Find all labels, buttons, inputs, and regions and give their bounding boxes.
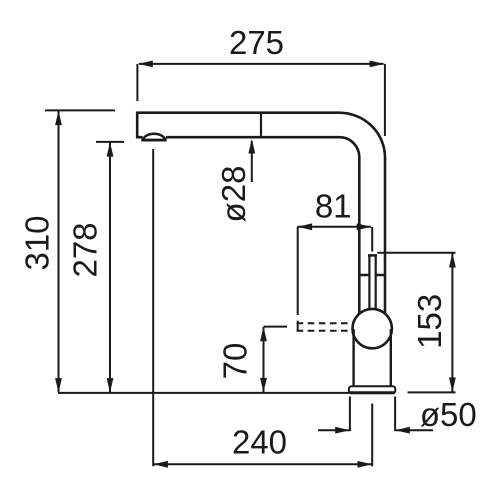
dia50 right extension line — [394, 397, 396, 432]
aerator base line — [141, 139, 166, 142]
dim 153 line — [451, 253, 453, 392]
dim 275 right extension line — [384, 64, 386, 136]
arrowhead 153 bottom — [449, 378, 456, 393]
arrowhead dia50 left — [335, 427, 350, 434]
dim 81 left extension line — [297, 227, 299, 315]
base flange — [349, 386, 395, 393]
arrowhead dia50 right — [395, 427, 410, 434]
arrowhead 81 left — [298, 223, 313, 230]
svg-text:153: 153 — [411, 294, 448, 349]
dim 278 line — [109, 142, 111, 392]
body right wall — [390, 329, 392, 386]
dim 81 right extension line — [371, 227, 373, 252]
body left wall — [352, 329, 354, 386]
svg-text:70: 70 — [217, 343, 254, 380]
hose rod left wall — [368, 255, 370, 310]
svg-text:ø50: ø50 — [420, 396, 477, 433]
arrowhead 310 bottom — [55, 378, 62, 393]
pull-out head joint line on spout — [260, 114, 262, 137]
svg-text:81: 81 — [315, 188, 352, 225]
dia50 right arrow tail — [396, 429, 433, 431]
dim 240 right extension line — [371, 404, 373, 467]
ball joint circle — [353, 309, 392, 348]
dim 310 line — [58, 111, 60, 392]
dim 310 top extension line — [45, 109, 115, 111]
hidden hose upper dashed line — [297, 322, 353, 324]
arrowhead 81 right — [357, 223, 372, 230]
dia50 left arrow tail — [318, 429, 349, 431]
dim 240 left extension line — [152, 149, 154, 466]
arrowhead 153 top — [449, 253, 456, 268]
faucet spout outer outline (top edge, bend, outer riser wall) — [137, 113, 385, 315]
arrowhead 240 right — [358, 461, 373, 468]
hose rod right wall — [375, 255, 377, 310]
arrowhead 310 top — [55, 111, 62, 126]
dim 70 line — [263, 327, 265, 392]
dim 275 left extension line — [136, 64, 138, 101]
riser joint ring right — [376, 274, 385, 277]
dim 81 left extension dash — [297, 321, 299, 331]
arrowhead 275 left — [138, 61, 153, 68]
dia28 leader line — [251, 141, 253, 182]
faucet spout tip left edge — [136, 112, 139, 139]
riser joint ring left — [359, 274, 368, 277]
svg-text:278: 278 — [67, 222, 104, 277]
faucet spout inner outline (bottom edge, inner bend, inner riser wall) — [166, 137, 359, 314]
faucet spout bottom edge stub at tip — [136, 136, 143, 139]
svg-text:240: 240 — [232, 424, 287, 461]
dim 70 top tick — [264, 326, 288, 328]
arrowhead 240 left — [153, 461, 168, 468]
baseline extension right of flange — [408, 391, 456, 393]
base flange bottom thick line — [350, 391, 395, 394]
hose rod cap — [368, 254, 377, 257]
dia50 left extension line — [349, 397, 351, 432]
dim 153 top extension line — [377, 252, 455, 254]
countertop baseline — [58, 392, 395, 394]
hidden hose lower dashed line — [297, 330, 353, 332]
arrowhead 278 bottom — [107, 378, 114, 393]
svg-text:275: 275 — [229, 24, 284, 61]
svg-text:310: 310 — [19, 215, 56, 270]
arrowhead 70 bottom — [260, 378, 267, 393]
aerator dome at spout tip — [143, 134, 166, 140]
dim 278 top extension tick — [96, 141, 124, 143]
dim 275 line — [139, 63, 384, 65]
svg-text:ø28: ø28 — [215, 166, 252, 223]
arrowhead 275 right — [370, 61, 385, 68]
dim 81 line — [297, 226, 371, 228]
arrowhead dia28 — [248, 139, 255, 154]
dim 240 line — [153, 463, 372, 465]
arrowhead 278 top — [107, 142, 114, 157]
arrowhead 70 top — [260, 327, 267, 342]
